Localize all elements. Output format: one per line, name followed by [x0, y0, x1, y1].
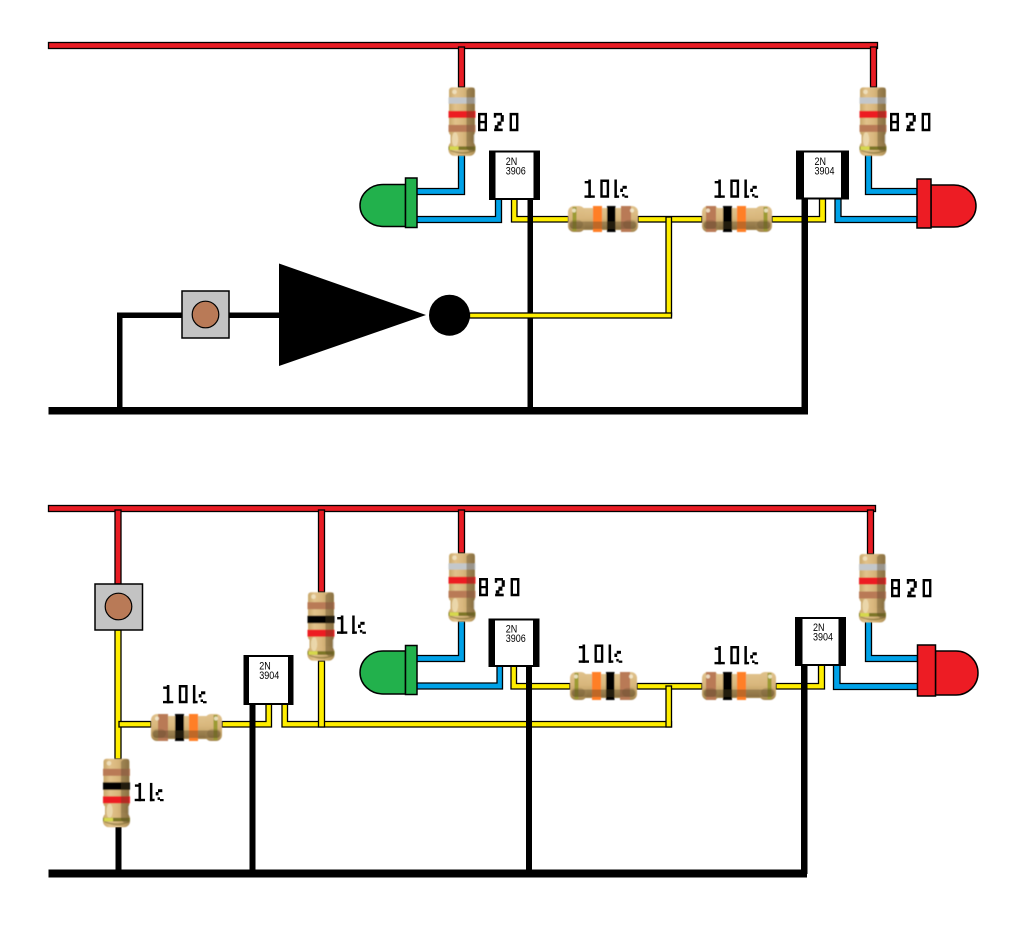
resistor R6 1k (brown-black-red, vertical)	[308, 592, 335, 661]
wire: blue from Q2 to LED D2	[835, 199, 917, 223]
pushbutton SW2 (pad)	[95, 584, 143, 630]
label R6 value 1k	[337, 616, 366, 634]
wire: yellow from R3 to Q2 base	[772, 199, 826, 222]
wire: yellow between R9 and R10	[637, 684, 702, 690]
LED D4 red (dome)	[936, 651, 979, 695]
transistor Q5 2N3904 (body)	[796, 618, 845, 665]
wire: blue from LED D3 cathode to Q4	[416, 666, 503, 689]
label R7 value 820	[479, 578, 519, 596]
transistor Q4 2N3906 (body)	[490, 620, 539, 667]
wire: black Q2 emitter to ground rail	[802, 199, 809, 412]
wire: yellow junction drop between R9 and R10	[666, 686, 672, 727]
wire: blue from R4 to LED D2	[866, 155, 918, 195]
wire: yellow from SW2 node to R5	[119, 722, 151, 728]
pushbutton SW2 (contact)	[105, 593, 132, 620]
resistor R4 820	[860, 87, 887, 155]
LED D3 green (flange)	[406, 646, 418, 695]
label R9 value 10k	[579, 645, 623, 663]
wire: red drop from rail to R11	[868, 510, 874, 554]
resistor R2 10k (orange-black-brown)	[568, 206, 638, 232]
label R8 value 1k	[135, 783, 164, 801]
wire: blue from R1 to LED D1 anode	[417, 155, 465, 195]
inverter U1 (triangle)	[279, 264, 426, 367]
LED D2 red (dome)	[931, 185, 976, 227]
LED D1 green (dome)	[360, 185, 406, 227]
ground rail (bottom circuit, black)	[49, 870, 808, 878]
label R5 value 10k	[163, 685, 207, 703]
LED D2 red (flange)	[917, 179, 931, 228]
svg-text:3904: 3904	[815, 165, 835, 177]
wire: red drop from rail to R7	[459, 510, 465, 553]
wire: red drop from rail to R4	[871, 47, 877, 87]
wire: +V power rail (red, bottom)	[49, 506, 876, 512]
wire: black Q3 emitter to ground rail	[250, 704, 256, 874]
LED D3 green (dome)	[360, 651, 405, 694]
resistor R7 820 (vertical)	[449, 553, 476, 622]
wire: yellow from Q1 base to R2	[512, 199, 569, 222]
svg-text:3904: 3904	[259, 670, 279, 682]
wire: yellow from R6 down to long run	[319, 661, 325, 727]
svg-text:3904: 3904	[813, 632, 833, 644]
wire: black from SW1 to inverter input	[229, 313, 279, 319]
wire: blue from LED D1 cathode to Q1	[416, 199, 502, 223]
wire: yellow between R2 and R3	[638, 217, 702, 223]
resistor R11 820 (vertical)	[859, 554, 886, 623]
wire: black Q1 emitter to ground rail	[528, 199, 534, 411]
wire: blue from R7 to LED D3 anode	[416, 621, 465, 662]
wire: blue from R11 to LED D4	[866, 621, 918, 662]
svg-text:3906: 3906	[506, 633, 526, 645]
wire: black from R8 to ground rail	[116, 827, 122, 874]
pushbutton SW1 (contact)	[192, 301, 219, 328]
wire: red drop from rail to R6	[319, 510, 325, 592]
wire: black Q5 emitter to ground rail	[801, 665, 808, 874]
inverter U1 (bubble)	[429, 295, 470, 336]
wire: red drop from rail to SW2	[115, 510, 121, 584]
label R1 value 820	[478, 113, 518, 131]
transistor Q2 2N3904 (body)	[797, 152, 848, 199]
resistor R5 10k (brown-black-orange)	[151, 714, 222, 741]
wire: yellow from R5 to Q3 base	[222, 704, 272, 727]
wire: yellow from SW2 down through node to R8	[115, 630, 121, 759]
wire: blue from Q5 to LED D4	[834, 665, 918, 690]
transistor Q1 2N3906 (body)	[490, 152, 539, 200]
wire: red drop from rail to R1	[459, 47, 465, 87]
ground rail (top circuit, black)	[49, 407, 809, 415]
wire: yellow inverter output line	[470, 313, 672, 318]
resistor R1 820	[449, 87, 476, 155]
wire: yellow long run from Q3 collector to junction node	[282, 704, 672, 727]
wire: black Q4 emitter to ground rail	[526, 666, 532, 874]
label R4 value 820	[890, 113, 930, 131]
label R11 value 820	[891, 579, 931, 597]
wire: black from ground rail up to switch SW1	[117, 313, 182, 410]
svg-text:3906: 3906	[506, 165, 526, 177]
pushbutton SW1 (pad)	[182, 291, 229, 338]
wire: yellow from Q4 base to R9	[511, 666, 570, 689]
resistor R8 1k (brown-black-red, vertical)	[103, 759, 130, 828]
LED D1 green (flange)	[406, 178, 418, 228]
label R3 value 10k	[715, 180, 759, 198]
label R10 value 10k	[715, 646, 759, 664]
resistor R9 10k (orange-black-brown)	[570, 672, 637, 700]
wire: yellow from R10 to Q5 base	[776, 665, 825, 689]
resistor R10 10k (brown-black-orange)	[702, 672, 776, 700]
wire: +V power rail (red, top)	[49, 43, 878, 49]
resistor R3 10k (brown-black-orange)	[702, 206, 772, 232]
wire: yellow junction drop to inverter output node	[666, 217, 672, 316]
transistor Q3 2N3904 (body)	[245, 656, 293, 704]
label R2 value 10k	[585, 180, 629, 198]
LED D4 red (flange)	[918, 645, 936, 696]
